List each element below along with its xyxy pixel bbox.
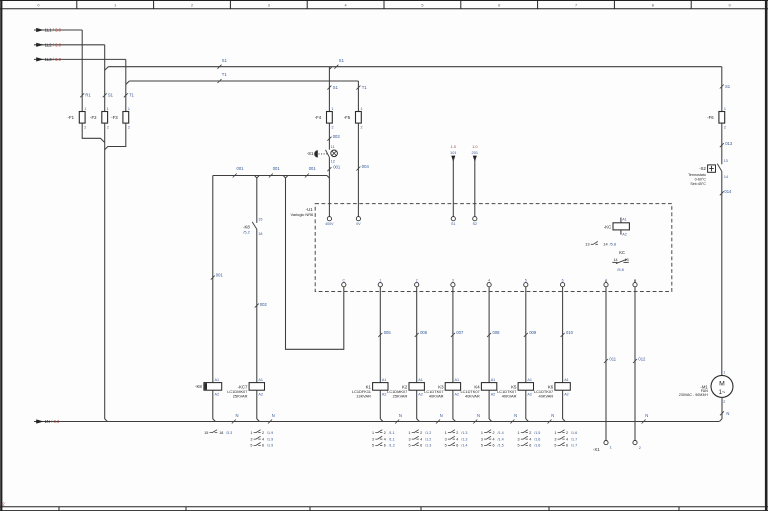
contact cross-reference table K5 — [518, 430, 541, 448]
svg-text:/1.6: /1.6 — [534, 437, 540, 441]
wire 013 F6 to thermostat S2 — [720, 123, 733, 164]
drawing frame right border — [765, 0, 768, 511]
svg-text:A2: A2 — [258, 392, 263, 396]
svg-text:N: N — [514, 413, 517, 418]
svg-text:3: 3 — [445, 437, 447, 441]
svg-text:N: N — [726, 411, 729, 416]
contact cross-reference table K1 — [372, 430, 395, 448]
svg-text:Set=45°C: Set=45°C — [690, 182, 706, 186]
svg-text:T1: T1 — [222, 72, 228, 77]
svg-text:A1: A1 — [382, 378, 387, 382]
svg-text:5: 5 — [445, 444, 447, 448]
feeder arrow 1L3 — [34, 57, 126, 62]
svg-text:1L2 / 3.0: 1L2 / 3.0 — [45, 43, 62, 48]
U1 terminal 3 — [451, 278, 455, 286]
svg-text:230VAC - 90M3/H: 230VAC - 90M3/H — [679, 393, 708, 397]
wire label S1 on F2 drop — [103, 93, 114, 98]
svg-text:S1: S1 — [451, 222, 455, 226]
svg-text:3: 3 — [481, 437, 483, 441]
svg-text:201: 201 — [472, 150, 479, 155]
wire motor M1 to neutral bus — [719, 397, 729, 421]
contactor coil K6 — [534, 378, 570, 399]
svg-text:/1.1: /1.1 — [389, 437, 395, 441]
wire 006 U1 terminal 2 to K2 coil — [415, 287, 428, 383]
svg-text:S1: S1 — [339, 58, 345, 63]
svg-text:0V: 0V — [356, 222, 361, 226]
svg-text:Termostato: Termostato — [688, 173, 706, 177]
svg-text:1L3 / 3.0: 1L3 / 3.0 — [45, 57, 62, 62]
svg-text:A1: A1 — [455, 378, 460, 382]
svg-text:25KVAR: 25KVAR — [233, 394, 248, 399]
wire K3 coil to neutral bus — [453, 390, 456, 421]
svg-text:3: 3 — [518, 437, 520, 441]
svg-text:/1.4: /1.4 — [498, 437, 504, 441]
wire F1 output to common drop — [82, 123, 105, 142]
svg-text:13: 13 — [585, 242, 589, 247]
svg-text:/5.2: /5.2 — [243, 230, 250, 235]
U1 terminal 7 — [604, 278, 608, 286]
emergency stop switch S1 — [307, 145, 338, 163]
feeder arrow 1L2 — [34, 43, 105, 48]
svg-text:1: 1 — [518, 431, 520, 435]
svg-text:M: M — [719, 380, 725, 387]
U1 terminal 8 stub — [634, 280, 636, 282]
fuse F6 — [707, 107, 726, 129]
svg-text:0-60°C: 0-60°C — [695, 178, 707, 182]
wire 010 U1 terminal 6 to K6 coil — [561, 287, 574, 383]
wire L1 drop to F1 — [81, 30, 83, 112]
svg-text:2: 2 — [128, 125, 130, 129]
svg-text:13: 13 — [625, 258, 629, 262]
svg-text:2: 2 — [639, 446, 641, 450]
svg-text:1: 1 — [554, 431, 556, 435]
svg-text:5: 5 — [525, 278, 527, 282]
wire 009 U1 terminal 5 to K5 coil — [524, 287, 537, 383]
svg-text:012: 012 — [638, 356, 646, 361]
contactor coil K3 — [424, 378, 460, 399]
contactor coil K4 — [460, 378, 496, 399]
svg-text:001: 001 — [309, 166, 317, 171]
wire K6 coil to neutral bus — [563, 390, 566, 421]
svg-text:-F2: -F2 — [90, 115, 97, 120]
svg-text:/1.4: /1.4 — [461, 444, 467, 448]
terminal X1-1 — [604, 441, 612, 450]
svg-text:/1.9: /1.9 — [267, 444, 273, 448]
wire L3 drop to F3 — [125, 59, 127, 111]
svg-text:40KVAR: 40KVAR — [539, 394, 554, 399]
svg-text:1: 1 — [332, 107, 334, 111]
svg-text:5: 5 — [421, 4, 423, 8]
svg-text:1: 1 — [481, 431, 483, 435]
svg-text:3: 3 — [268, 4, 270, 8]
U1 terminal 6 — [561, 278, 565, 286]
svg-text:011: 011 — [609, 356, 616, 361]
svg-text:N: N — [440, 413, 443, 418]
svg-text:002: 002 — [260, 302, 268, 307]
svg-text:18: 18 — [258, 232, 262, 236]
svg-text:9: 9 — [729, 4, 731, 8]
svg-text:25KVAR: 25KVAR — [393, 394, 408, 399]
svg-text:-S2: -S2 — [699, 166, 706, 171]
wire K5 coil to neutral bus — [526, 390, 529, 421]
wire 011 U1 terminal 7 to X1-1 — [604, 287, 617, 441]
CT wire 201 from folio 1.0 — [472, 144, 479, 216]
svg-text:/1.5: /1.5 — [534, 431, 540, 435]
svg-text:1: 1 — [114, 4, 116, 8]
contact cross-reference table K3 — [445, 430, 468, 448]
svg-text:3: 3 — [554, 437, 556, 441]
svg-text:4: 4 — [566, 437, 568, 441]
wire net T1 horizontal — [126, 72, 359, 84]
svg-text:4: 4 — [488, 278, 490, 282]
U1 terminal 1 — [378, 278, 382, 286]
svg-text:A2: A2 — [527, 392, 532, 396]
wire K1 coil to neutral bus — [380, 390, 383, 421]
wire T1 net drop to F5 — [356, 81, 367, 112]
svg-text:13: 13 — [724, 159, 728, 163]
svg-text:R1: R1 — [85, 93, 91, 98]
svg-text:A2: A2 — [622, 233, 627, 237]
svg-text:6: 6 — [384, 444, 386, 448]
svg-text:3: 3 — [250, 437, 252, 441]
svg-text:3: 3 — [372, 437, 374, 441]
svg-text:1: 1 — [128, 107, 130, 111]
svg-text:15: 15 — [204, 431, 208, 435]
svg-text:A1: A1 — [418, 378, 423, 382]
svg-text:001: 001 — [333, 164, 341, 169]
wire 004 F5 to U1 0V terminal — [356, 123, 369, 217]
svg-text:6: 6 — [456, 444, 458, 448]
svg-text:A2: A2 — [215, 392, 220, 396]
svg-text:6: 6 — [562, 278, 564, 282]
svg-text:3: 3 — [452, 278, 454, 282]
svg-text:A1: A1 — [215, 378, 220, 382]
svg-text:4: 4 — [420, 437, 422, 441]
feeder arrow 1L1 — [34, 28, 82, 33]
svg-text:2: 2 — [723, 400, 725, 404]
contact cross-reference table K4 — [481, 430, 504, 448]
contact cross-reference table K6 — [554, 430, 577, 448]
wire K8 coil to neutral bus — [213, 390, 216, 421]
svg-text:/1.7: /1.7 — [571, 444, 577, 448]
contact cross-reference table KC7 — [250, 430, 273, 448]
svg-text:/1.6: /1.6 — [571, 431, 577, 435]
svg-text:4: 4 — [529, 437, 531, 441]
svg-text:400V: 400V — [325, 222, 334, 226]
svg-text:A1: A1 — [622, 218, 627, 222]
fuse F2 — [90, 107, 109, 129]
svg-text:1: 1 — [445, 431, 447, 435]
svg-text:008: 008 — [493, 330, 501, 335]
svg-text:5: 5 — [250, 444, 252, 448]
svg-text:N: N — [272, 413, 275, 418]
svg-text:1.0: 1.0 — [451, 144, 457, 149]
svg-text:4: 4 — [456, 437, 458, 441]
svg-text:6: 6 — [529, 444, 531, 448]
svg-text:1L1 / 3.0: 1L1 / 3.0 — [45, 28, 62, 33]
wire S1 net drop to F4 — [327, 67, 338, 112]
contact cross-reference table K8 — [204, 430, 232, 435]
svg-text:KC: KC — [619, 250, 625, 255]
wire F3 output to common drop — [105, 123, 126, 150]
svg-text:/1.6: /1.6 — [534, 444, 540, 448]
wire 001 control rail — [213, 166, 330, 178]
svg-text:2: 2 — [416, 278, 418, 282]
fuse F3 — [111, 107, 130, 129]
svg-text:4: 4 — [345, 4, 347, 8]
svg-text:-F5: -F5 — [344, 115, 351, 120]
wire L2 drop to F2 — [104, 45, 106, 112]
svg-text:1: 1 — [107, 107, 109, 111]
svg-text:1: 1 — [379, 278, 381, 282]
svg-text:/1.2: /1.2 — [425, 431, 431, 435]
svg-text:A2: A2 — [455, 392, 460, 396]
wire net S1 horizontal — [105, 58, 722, 70]
svg-text:N: N — [399, 413, 402, 418]
svg-text:N: N — [236, 413, 239, 418]
svg-text:6: 6 — [262, 444, 264, 448]
svg-text:A2: A2 — [418, 392, 423, 396]
wire 007 U1 terminal 3 to K3 coil — [451, 287, 464, 383]
svg-text:-S1: -S1 — [307, 151, 314, 156]
wire S1 net drop to F6 — [720, 67, 731, 112]
svg-text:N: N — [551, 413, 554, 418]
svg-text:013: 013 — [725, 141, 733, 146]
svg-text:5: 5 — [481, 444, 483, 448]
svg-text:-F3: -F3 — [111, 115, 118, 120]
svg-text:7: 7 — [575, 4, 577, 8]
svg-text:001: 001 — [237, 166, 245, 171]
svg-text:S2: S2 — [473, 222, 477, 226]
svg-text:/5.8: /5.8 — [610, 242, 617, 247]
svg-text:1: 1 — [84, 107, 86, 111]
svg-text:/1.9: /1.9 — [267, 437, 273, 441]
svg-text:010: 010 — [566, 330, 574, 335]
svg-text:18: 18 — [219, 431, 223, 435]
svg-text:13KVAR: 13KVAR — [356, 394, 371, 399]
svg-text:0: 0 — [37, 4, 39, 8]
svg-text:15: 15 — [258, 217, 262, 221]
svg-text:8: 8 — [652, 4, 654, 8]
svg-text:S1: S1 — [222, 58, 228, 63]
wire 014 thermostat S2 to motor M1 — [720, 171, 732, 375]
svg-text:009: 009 — [529, 330, 537, 335]
svg-text:/1.5: /1.5 — [498, 444, 504, 448]
svg-text:5: 5 — [372, 444, 374, 448]
svg-text:/1.3: /1.3 — [461, 431, 467, 435]
svg-text:014: 014 — [724, 189, 732, 194]
svg-text:5: 5 — [518, 444, 520, 448]
svg-text:A1: A1 — [564, 378, 569, 382]
svg-text:2: 2 — [262, 431, 264, 435]
svg-text:2: 2 — [420, 431, 422, 435]
svg-text:4: 4 — [262, 437, 264, 441]
fuse F4 — [315, 107, 334, 129]
svg-text:Varlogic NR6: Varlogic NR6 — [291, 212, 314, 217]
svg-text:6: 6 — [493, 444, 495, 448]
svg-text:6: 6 — [498, 4, 500, 8]
svg-text:N: N — [477, 413, 480, 418]
svg-text:1.0: 1.0 — [472, 144, 478, 149]
svg-text:1: 1 — [250, 431, 252, 435]
U1 terminal S2 — [473, 217, 477, 226]
svg-text:12: 12 — [331, 159, 335, 163]
svg-text:A2: A2 — [491, 392, 496, 396]
svg-text:11: 11 — [331, 145, 335, 149]
svg-text:A1: A1 — [258, 378, 263, 382]
svg-text:007: 007 — [456, 330, 464, 335]
svg-text:-X1: -X1 — [593, 447, 600, 452]
terminal X1-2 — [633, 441, 641, 451]
svg-text:1: 1 — [723, 371, 725, 375]
svg-text:1N / 3.3: 1N / 3.3 — [45, 419, 60, 424]
wire 001 switch S1 to U1 400V terminal — [327, 157, 340, 216]
U1 terminal 400V — [325, 217, 334, 226]
U1 terminal S1 — [451, 217, 455, 226]
U1 terminal 8 — [633, 278, 637, 286]
svg-text:003: 003 — [333, 134, 341, 139]
svg-text:A1: A1 — [491, 378, 496, 382]
svg-text:-K8: -K8 — [195, 384, 202, 389]
wire K4 coil to neutral bus — [489, 390, 492, 421]
fuse F5 — [344, 107, 363, 129]
controller U1 Varlogic dashed enclosure — [291, 204, 672, 292]
wire 001 rail to K8 contact — [256, 178, 258, 223]
svg-text:2: 2 — [191, 4, 193, 8]
svg-text:/1.4: /1.4 — [498, 431, 504, 435]
svg-text:6: 6 — [420, 444, 422, 448]
wire label R1 on F1 drop — [80, 93, 91, 98]
svg-text:1: 1 — [361, 107, 363, 111]
U1 terminal 0V — [356, 217, 361, 226]
svg-text:14: 14 — [724, 175, 728, 179]
svg-text:A2: A2 — [382, 392, 387, 396]
svg-text:/5.8: /5.8 — [617, 267, 624, 272]
svg-text:2: 2 — [566, 431, 568, 435]
fan motor M1 — [679, 375, 733, 397]
svg-text:005: 005 — [384, 330, 392, 335]
svg-text:4: 4 — [493, 437, 495, 441]
svg-text:-F4: -F4 — [315, 115, 322, 120]
svg-text:2: 2 — [84, 125, 86, 129]
svg-text:40KVAR: 40KVAR — [465, 394, 480, 399]
relay coil K8 — [195, 378, 222, 397]
U1 terminal 7 stub — [605, 280, 607, 282]
svg-text:6: 6 — [566, 444, 568, 448]
thermostat switch S2 — [688, 164, 722, 187]
contact cross-reference table K2 — [408, 430, 431, 448]
drawing frame bottom border — [0, 502, 768, 511]
svg-text:2: 2 — [529, 431, 531, 435]
svg-text:2: 2 — [724, 125, 726, 129]
svg-text:T1: T1 — [129, 93, 135, 98]
svg-text:001: 001 — [273, 166, 281, 171]
drawing frame top border — [0, 0, 768, 9]
svg-text:/1.2: /1.2 — [425, 437, 431, 441]
svg-text:1: 1 — [408, 431, 410, 435]
svg-text:2: 2 — [456, 431, 458, 435]
wire C terminal common to 001 rail — [286, 178, 344, 349]
svg-text:004: 004 — [362, 164, 370, 169]
wire label T1 on F3 drop — [124, 93, 135, 98]
svg-text:001: 001 — [216, 272, 224, 277]
svg-text:14: 14 — [613, 258, 617, 262]
KC contact cross-reference 13-14 — [585, 241, 616, 246]
wire 008 U1 terminal 4 to K4 coil — [487, 287, 500, 383]
svg-text:T1: T1 — [362, 85, 368, 90]
wire 001 rail to K8 coil — [211, 176, 224, 383]
svg-text:1: 1 — [610, 446, 612, 450]
drawing frame left border — [0, 0, 2, 511]
wire 012 U1 terminal 8 to X1-2 — [633, 287, 646, 441]
contactor coil K1 — [352, 378, 388, 399]
svg-text:2: 2 — [384, 431, 386, 435]
svg-text:/1.3: /1.3 — [425, 444, 431, 448]
alarm relay coil KC inside U1 — [604, 218, 630, 237]
fuse F1 — [68, 107, 87, 129]
svg-text:S1: S1 — [108, 93, 114, 98]
svg-text:-F1: -F1 — [68, 115, 75, 120]
neutral bus N slashes — [232, 413, 649, 424]
svg-text:/1.2: /1.2 — [389, 444, 395, 448]
wire K2 coil to neutral bus — [417, 390, 420, 421]
svg-text:2: 2 — [361, 125, 363, 129]
feeder arrow 1N neutral — [34, 419, 719, 424]
svg-text:A1: A1 — [527, 378, 532, 382]
svg-text:40KVAR: 40KVAR — [502, 394, 517, 399]
svg-text:/1.3: /1.3 — [461, 437, 467, 441]
svg-text:S1: S1 — [725, 84, 731, 89]
svg-text:006: 006 — [420, 330, 428, 335]
svg-text:/1.7: /1.7 — [571, 437, 577, 441]
wire 002 K8 contact to KC7 coil — [255, 229, 268, 383]
svg-text:-F6: -F6 — [707, 115, 714, 120]
U1 terminal 4 — [487, 278, 491, 286]
svg-text:1: 1 — [724, 107, 726, 111]
svg-text:2: 2 — [107, 125, 109, 129]
wire common drop to neutral bus — [105, 123, 108, 421]
svg-text:5: 5 — [408, 444, 410, 448]
svg-text:3: 3 — [408, 437, 410, 441]
svg-text:1~: 1~ — [719, 390, 726, 396]
contactor coil KC7 — [227, 378, 264, 399]
wire KC7 coil to neutral bus — [257, 390, 260, 421]
contactor coil K2 — [387, 378, 424, 399]
svg-text:4: 4 — [384, 437, 386, 441]
svg-text:S1: S1 — [333, 85, 339, 90]
U1 terminal 5 — [524, 278, 528, 286]
CT wire 101 from folio 1.0 — [450, 144, 457, 216]
svg-text:-KC: -KC — [604, 225, 611, 230]
svg-text:5: 5 — [554, 444, 556, 448]
U1 terminal C — [342, 278, 346, 286]
wire 003 F4 to switch S1 — [327, 123, 340, 150]
svg-text:2: 2 — [332, 125, 334, 129]
svg-text:N: N — [645, 413, 648, 418]
svg-text:/1.9: /1.9 — [267, 431, 273, 435]
svg-text:2: 2 — [493, 431, 495, 435]
svg-text:/3.3: /3.3 — [226, 431, 232, 435]
svg-text:A2: A2 — [564, 392, 569, 396]
U1 terminal 2 — [415, 278, 419, 286]
svg-text:/1.1: /1.1 — [389, 431, 395, 435]
svg-text:101: 101 — [450, 150, 457, 155]
svg-text:40KVAR: 40KVAR — [429, 394, 444, 399]
svg-text:1: 1 — [372, 431, 374, 435]
wire 005 U1 terminal 1 to K1 coil — [378, 287, 391, 383]
KC alarm contact 14-13 — [612, 250, 628, 272]
contactor coil K5 — [497, 378, 533, 399]
